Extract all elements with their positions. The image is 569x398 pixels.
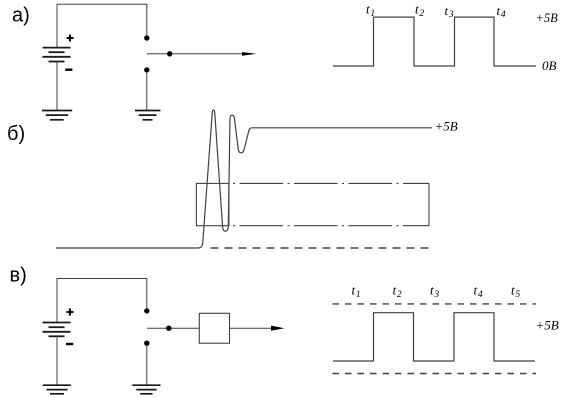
dashed level bottom (v) (333, 373, 537, 375)
switch S2 top contact node (144, 308, 149, 313)
svg-text:+5В: +5В (536, 318, 559, 333)
waveform b trace with ringing (56, 110, 432, 248)
wire output a (147, 53, 250, 55)
ground (battery a) (42, 111, 72, 120)
switch S1 top contact node (144, 35, 149, 40)
battery GB1 (43, 48, 71, 62)
block U1 (shaper box) (199, 313, 229, 343)
arrowhead output v (271, 326, 285, 331)
switch S1 bottom contact node (144, 67, 149, 72)
svg-text:0В: 0В (542, 58, 557, 73)
dashed level top (v) (333, 303, 537, 305)
node junction on output v (166, 326, 171, 331)
ground (switch v) (132, 385, 160, 394)
svg-text:в): в) (10, 265, 27, 287)
svg-text:+5В: +5В (435, 119, 458, 134)
wire switch to block (v) (147, 327, 199, 329)
wire bottom contact to ground (v) (146, 346, 148, 385)
waveform a trace (333, 17, 536, 66)
battery GB2 polarity - (66, 343, 73, 345)
arrowhead output a (242, 52, 257, 56)
wire battery+ to switch top contact (v) (57, 279, 147, 323)
waveform v trace (333, 313, 535, 361)
dashed baseline (b) (211, 247, 433, 249)
transient zone box (solid part) (196, 183, 229, 225)
battery GB1 polarity + (67, 35, 74, 42)
wire battery+ to switch top contact (57, 4, 147, 47)
battery GB1 polarity - (65, 68, 72, 70)
battery GB2 (43, 323, 71, 337)
wire bottom contact to ground (146, 72, 148, 110)
zone boundary dash-dot top (233, 182, 429, 184)
zone right edge (428, 183, 430, 225)
svg-text:а): а) (12, 5, 30, 27)
svg-text:б): б) (7, 123, 25, 145)
wire block to arrow (v) (230, 327, 281, 329)
node junction on output a (167, 51, 172, 56)
battery GB2 polarity + (67, 309, 74, 316)
wire battery- to ground (v) (56, 336, 58, 384)
switch S2 bottom contact node (144, 341, 149, 346)
ground (switch a) (135, 111, 161, 120)
wire battery- to ground (56, 62, 58, 111)
zone boundary dash-dot bottom (233, 225, 429, 227)
svg-text:+5В: +5В (536, 11, 559, 25)
ground (battery v) (43, 385, 71, 394)
